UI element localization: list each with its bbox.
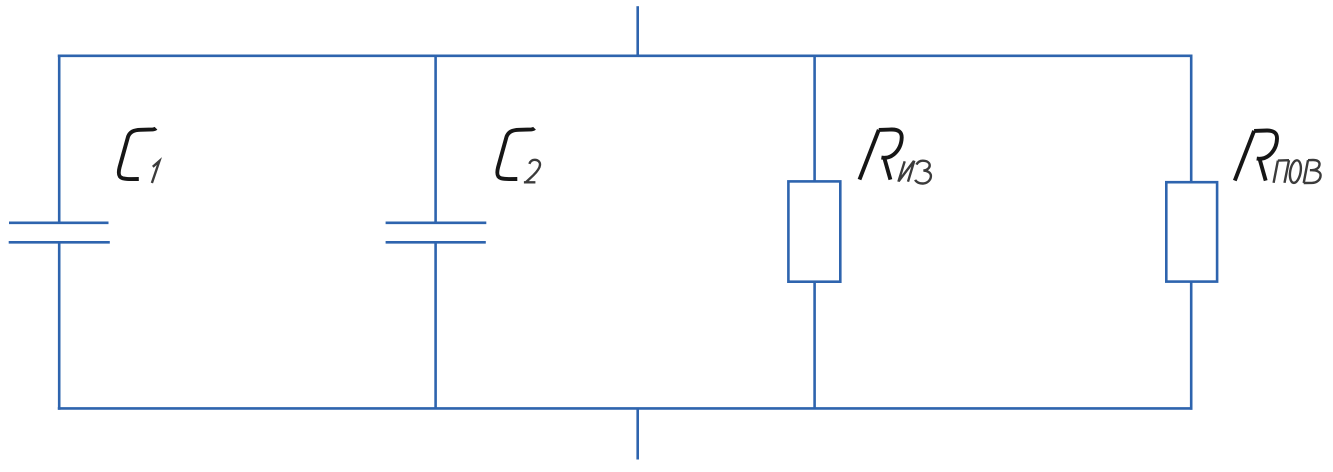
wire Riz branch upper (813, 55, 816, 182)
label Riz (860, 129, 902, 179)
wire left rail upper (58, 55, 61, 223)
resistor Rpov body (1166, 182, 1217, 281)
label C2 (497, 128, 534, 179)
resistor Riz body (788, 181, 840, 281)
wire left rail lower (58, 242, 61, 409)
wire top terminal stub (636, 6, 639, 56)
capacitor C2 (386, 223, 487, 243)
wire right rail upper (1190, 55, 1193, 183)
wire C2 branch lower (434, 242, 437, 408)
wire top bus (58, 54, 1193, 57)
wire bottom terminal stub (636, 408, 639, 459)
label Rpov (1235, 130, 1277, 180)
label C1 (119, 128, 156, 179)
wire bottom bus (58, 407, 1193, 410)
capacitor C1 (9, 223, 110, 243)
wire C2 branch upper (434, 55, 437, 223)
wire Riz branch lower (813, 282, 816, 409)
wire right rail lower (1190, 282, 1193, 410)
